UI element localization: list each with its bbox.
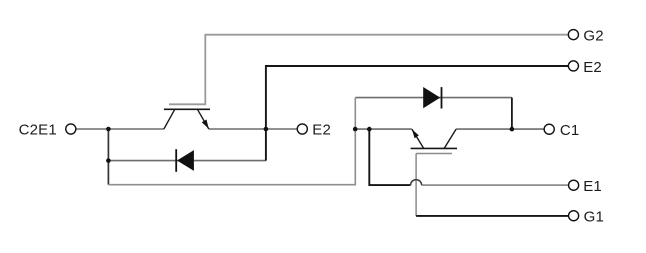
svg-text:E2: E2 [583,59,602,76]
svg-text:E1: E1 [583,178,602,195]
svg-text:C1: C1 [560,122,580,139]
svg-text:E2: E2 [312,121,331,138]
svg-text:C2E1: C2E1 [19,122,57,139]
svg-text:G2: G2 [583,27,603,44]
svg-text:G1: G1 [584,208,604,225]
